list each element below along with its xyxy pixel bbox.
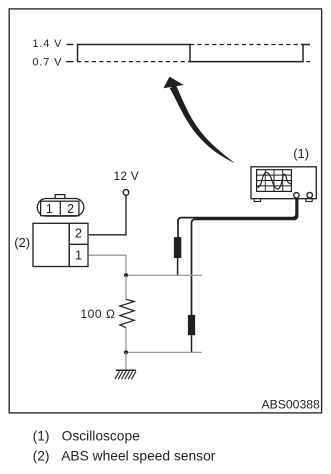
probe cable bundle filler	[195, 198, 297, 218]
svg-text:1: 1	[75, 247, 82, 262]
wire resistor to node B	[125, 328, 127, 353]
knob jack 2	[307, 192, 313, 198]
tick at 1.4V level	[67, 44, 74, 46]
wire node A to probe 1 tap	[126, 274, 202, 276]
connector terminal block	[41, 201, 79, 216]
svg-text:(2): (2)	[33, 449, 50, 464]
knob jack 1	[294, 193, 300, 199]
connector latch tab	[55, 195, 65, 199]
screen grid horizontal lines	[257, 175, 292, 186]
scope foot right	[306, 199, 312, 202]
connector face view pill	[37, 199, 84, 217]
svg-text:12 V: 12 V	[114, 169, 140, 183]
wire node B to ground	[125, 352, 127, 370]
probe body 2	[188, 315, 195, 335]
tick at 0.7V level	[66, 61, 74, 63]
svg-text:ABS wheel speed sensor: ABS wheel speed sensor	[61, 449, 216, 464]
svg-text:(2): (2)	[14, 235, 30, 250]
svg-text:2: 2	[67, 202, 74, 216]
curved arrow from oscilloscope to waveform with arrowhead	[163, 77, 234, 163]
wire node A to resistor	[125, 275, 127, 299]
oscilloscope U1 body	[251, 167, 316, 199]
svg-text:ABS00388: ABS00388	[262, 397, 320, 411]
svg-text:(1): (1)	[293, 146, 309, 161]
probe body 1	[174, 237, 181, 258]
probe tip 2	[191, 335, 193, 352]
ABS wheel speed sensor body	[33, 223, 69, 266]
connector terminal divider	[59, 201, 61, 216]
sensor pin 2 box	[69, 223, 88, 244]
resistor R 100 ohm zigzag	[120, 299, 134, 327]
node A junction dot	[124, 273, 128, 277]
square wave trace	[78, 45, 311, 62]
probe cable 1 from scope jack	[178, 198, 296, 238]
svg-text:100 Ω: 100 Ω	[80, 307, 115, 321]
svg-text:1.4 V: 1.4 V	[32, 38, 62, 50]
node B junction dot	[124, 350, 128, 354]
svg-text:0.7 V: 0.7 V	[32, 56, 62, 68]
oscilloscope screen	[257, 170, 292, 192]
wire node B to probe 2 tap	[126, 351, 202, 353]
wire 12V to sensor pin 2	[89, 195, 126, 235]
ground	[115, 370, 136, 379]
scope foot left	[254, 199, 260, 202]
svg-text:1: 1	[46, 202, 53, 216]
dashed reference line 0.7V	[77, 61, 310, 63]
screen waveform trace	[257, 172, 291, 189]
wire sensor pin 1 to node A	[89, 255, 126, 274]
probe cable 2 from scope jack	[192, 198, 298, 315]
probe tip 1	[177, 258, 179, 275]
screen grid vertical lines	[265, 170, 282, 192]
svg-text:(1): (1)	[33, 429, 50, 444]
12V terminal circle	[123, 190, 129, 196]
svg-text:Oscilloscope: Oscilloscope	[62, 429, 141, 444]
sensor pin 1 box	[69, 244, 88, 266]
svg-text:2: 2	[75, 225, 82, 240]
dashed reference line 1.4V	[190, 44, 310, 46]
